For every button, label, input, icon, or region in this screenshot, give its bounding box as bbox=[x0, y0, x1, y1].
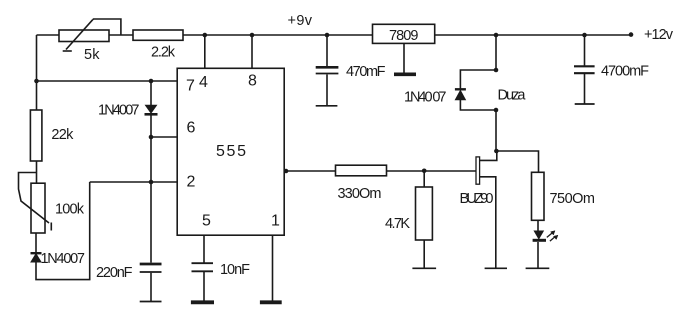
potentiometer 5k bbox=[59, 20, 109, 51]
svg-text:10nF: 10nF bbox=[220, 262, 250, 278]
label pin 5 bbox=[202, 212, 211, 229]
capacitor 470mF bbox=[316, 67, 339, 106]
LED D4 bbox=[533, 231, 558, 241]
wire 22k to 100k bbox=[36, 161, 38, 183]
svg-text:1N4007: 1N4007 bbox=[41, 251, 86, 267]
wire +9v rail left segment bbox=[37, 34, 60, 36]
svg-text:555: 555 bbox=[216, 143, 246, 160]
capacitor 10nF bbox=[192, 263, 214, 301]
wire Duza branch down from +12v rail bbox=[495, 35, 497, 70]
node Duza bottom junction bbox=[494, 108, 499, 113]
label 220nF bbox=[96, 265, 133, 281]
label 330Om bbox=[338, 186, 382, 202]
wire 750Om to LED bbox=[537, 220, 539, 231]
svg-text:4.7K: 4.7K bbox=[385, 216, 410, 232]
node 4700mF junction bbox=[582, 33, 587, 38]
label pin 6 bbox=[187, 119, 196, 136]
potentiometer 100k bbox=[19, 173, 52, 234]
svg-text:750Om: 750Om bbox=[550, 191, 596, 207]
regulator 7809 bbox=[373, 24, 435, 43]
wire pin6 node down to pin2 node bbox=[150, 137, 152, 182]
label pin 4 bbox=[199, 74, 208, 91]
transistor BUZ90 gate plate bbox=[476, 157, 480, 184]
wire 2.2k to 7809 bbox=[183, 34, 373, 36]
capacitor 4700mF bbox=[574, 66, 595, 104]
svg-text:1N40 07: 1N40 07 bbox=[404, 89, 447, 105]
node pin4 junction bbox=[203, 33, 208, 38]
ground under source bbox=[485, 267, 507, 269]
node pin8 junction bbox=[250, 33, 255, 38]
svg-text:7: 7 bbox=[186, 78, 195, 95]
wire 4700mF branch bbox=[584, 35, 586, 66]
node Duza top junction bbox=[494, 68, 499, 73]
label 10nF bbox=[220, 262, 250, 278]
node diode top junction bbox=[149, 79, 154, 84]
node pin6 junction bbox=[149, 135, 154, 140]
wire 7809 to +12v bbox=[435, 34, 631, 36]
resistor 750Om bbox=[532, 172, 545, 220]
ground under pin 1 bbox=[260, 300, 282, 304]
svg-text:2.2k: 2.2k bbox=[151, 45, 176, 61]
svg-text:220nF: 220nF bbox=[96, 265, 133, 281]
wire 220nF branch bbox=[150, 182, 152, 263]
wire pin 8 to +9v rail bbox=[251, 35, 253, 68]
wire 330Om to gate bbox=[387, 170, 477, 172]
label 5k bbox=[84, 47, 100, 63]
svg-text:7809: 7809 bbox=[389, 28, 419, 44]
wire left rail vertical bbox=[36, 35, 38, 110]
label 555 bbox=[216, 143, 246, 160]
wire Duza node top to diode bbox=[460, 70, 496, 89]
wire drain node to 750Om bbox=[496, 151, 539, 172]
diode 1N4007 discharge bbox=[145, 105, 158, 114]
ground under LED bbox=[526, 267, 550, 269]
IC 555 U1 bbox=[177, 68, 284, 235]
svg-text:330Om: 330Om bbox=[338, 186, 382, 202]
svg-text:Duza: Duza bbox=[498, 87, 527, 103]
label 4700mF bbox=[601, 64, 649, 80]
wire pin 5 bbox=[203, 235, 205, 262]
wire pin2 node to bottom-left loop bbox=[36, 182, 90, 280]
wire pin 3 output bbox=[284, 170, 335, 172]
label pin 8 bbox=[248, 72, 257, 89]
wire pin 6 bbox=[151, 136, 177, 138]
label +12v bbox=[644, 27, 674, 43]
wire diode to pin 6 node bbox=[150, 116, 152, 138]
svg-text:4700mF: 4700mF bbox=[601, 64, 649, 80]
label 7809 bbox=[389, 28, 419, 44]
node drain junction bbox=[494, 149, 499, 154]
svg-text:1N4007: 1N4007 bbox=[98, 103, 140, 119]
node gate/4.7K junction bbox=[422, 169, 427, 174]
svg-text:470mF: 470mF bbox=[346, 64, 386, 80]
label 1N4007 bottom bbox=[41, 251, 86, 267]
wire source tap to ground bbox=[480, 177, 496, 268]
node Duza rail junction bbox=[494, 33, 499, 38]
capacitor 220nF bbox=[140, 264, 162, 302]
wire pin 1 bbox=[272, 235, 274, 301]
label Duza bbox=[498, 87, 527, 103]
wire 5k wiper to right terminal bbox=[93, 19, 121, 35]
diode 1N4007 bottom-left bbox=[31, 253, 42, 262]
svg-text:22k: 22k bbox=[51, 127, 74, 143]
wire drain tap bbox=[480, 151, 497, 160]
wire 4.7K to ground bbox=[423, 240, 425, 268]
node pin2 junction bbox=[149, 180, 154, 185]
ground under 7809 bbox=[394, 43, 416, 74]
resistor 330Om bbox=[336, 165, 387, 176]
wire diode to 100k pot bbox=[35, 233, 37, 253]
wire LED to ground bbox=[537, 242, 539, 268]
label 2.2k bbox=[151, 45, 176, 61]
label 750Om bbox=[550, 191, 596, 207]
ground under 10nF bbox=[191, 300, 214, 304]
label 22k bbox=[51, 127, 74, 143]
resistor 2.2k bbox=[133, 30, 183, 40]
svg-text:+9v: +9v bbox=[288, 13, 313, 29]
label pin 1 bbox=[271, 212, 280, 229]
label BUZ90 bbox=[460, 191, 494, 207]
label 1N4007 top bbox=[98, 103, 140, 119]
node +12v terminal dot bbox=[629, 32, 634, 37]
svg-text:2: 2 bbox=[187, 174, 196, 191]
svg-text:100k: 100k bbox=[55, 202, 85, 218]
wire pin 2 bbox=[90, 181, 178, 183]
label 470mF bbox=[346, 64, 386, 80]
svg-text:8: 8 bbox=[248, 72, 257, 89]
wire 5k to 2.2k bbox=[109, 34, 133, 36]
svg-text:5: 5 bbox=[202, 212, 211, 229]
svg-text:1: 1 bbox=[271, 212, 280, 229]
node 470mF junction bbox=[325, 33, 330, 38]
svg-text:6: 6 bbox=[187, 119, 196, 136]
svg-text:+12v: +12v bbox=[644, 27, 674, 43]
wire pin 4 to +9v rail bbox=[204, 35, 206, 68]
node pin7/rail junction bbox=[34, 79, 39, 84]
wire Duza node to drain node bbox=[495, 110, 497, 151]
label +9v bbox=[288, 13, 313, 29]
label 100k bbox=[55, 202, 85, 218]
diode 1N4007 flyback bbox=[455, 89, 466, 100]
resistor 22k bbox=[30, 110, 42, 161]
label 1N40 07 bbox=[404, 89, 447, 105]
wire 4.7K branch bbox=[423, 171, 425, 187]
resistor 4.7K bbox=[416, 187, 433, 240]
label pin 7 bbox=[186, 78, 195, 95]
label pin 2 bbox=[187, 174, 196, 191]
svg-text:BUZ90: BUZ90 bbox=[460, 191, 494, 207]
svg-text:5k: 5k bbox=[84, 47, 100, 63]
wire diode chain upper segment bbox=[150, 81, 152, 105]
wire pin 7 bbox=[37, 80, 178, 82]
wire 470mF branch bbox=[326, 35, 328, 67]
node pin3 output dot bbox=[284, 169, 289, 174]
wire diode bottom to Duza node bbox=[460, 100, 496, 110]
svg-text:4: 4 bbox=[199, 74, 208, 91]
label 4.7K bbox=[385, 216, 410, 232]
ground under 4.7K bbox=[412, 267, 436, 269]
